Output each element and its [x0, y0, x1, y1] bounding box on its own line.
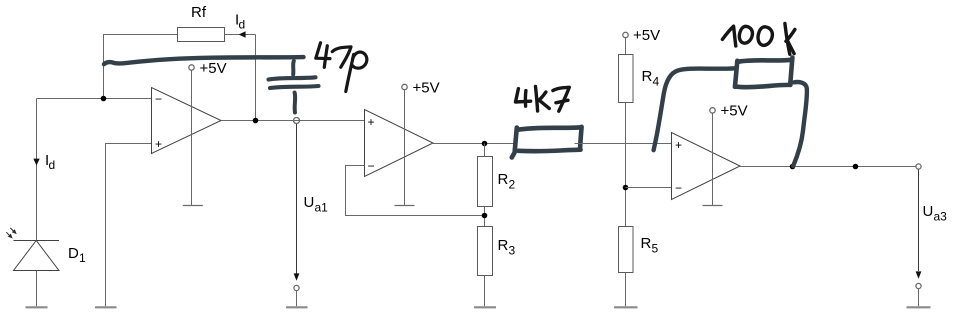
- hand-drawn wire: cap bottom lead: [293, 93, 298, 113]
- terminal +5V (R4): [623, 32, 628, 37]
- svg-text:−: −: [675, 181, 682, 195]
- resistor R5: [619, 227, 634, 273]
- svg-text:2: 2: [509, 178, 516, 192]
- light arrows into D1: [6, 228, 16, 238]
- terminal +5V (U1): [189, 65, 194, 70]
- ground (D1): [26, 306, 48, 308]
- current arrow Id (feedback): [239, 31, 246, 37]
- node: U1 output / feedback junction: [253, 118, 259, 124]
- handwritten value 47p: [316, 43, 367, 92]
- resistor Rf: [178, 28, 225, 42]
- wire: Rf right leg down to U1 output: [255, 35, 257, 121]
- op-amp U3: [672, 133, 741, 200]
- svg-text:+5V: +5V: [200, 60, 227, 77]
- svg-text:4: 4: [653, 75, 660, 89]
- hand-drawn wire: 47p cap top connection (parallel to Rf): [104, 57, 304, 64]
- hand-drawn capacitor 47p bottom plate: [270, 86, 319, 88]
- svg-text:+5V: +5V: [633, 27, 660, 44]
- wire: R2 to R3: [484, 207, 486, 227]
- ground (Ua1): [286, 306, 308, 308]
- wire: photodiode vertical: [36, 99, 38, 241]
- wire: R4 to R5 (crosses signal wire): [625, 103, 627, 227]
- hand-drawn resistor sketch 100k (white fill): [736, 60, 792, 87]
- wire: segment visible inside 4k7 sketch: [575, 143, 584, 145]
- wire: U2 power rail: [404, 90, 406, 206]
- node: output junction 2: [853, 164, 859, 170]
- terminal +5V (U2): [402, 84, 407, 89]
- terminal circle Ua3 top: [916, 164, 921, 169]
- svg-text:+: +: [368, 115, 375, 129]
- wire: R5 to ground: [625, 273, 627, 307]
- svg-text:R: R: [498, 237, 509, 254]
- wire: +5V to R4: [625, 38, 627, 55]
- wire: U3 output: [740, 166, 916, 168]
- hand-drawn wire: cap top lead: [291, 61, 296, 75]
- ground (U3): [703, 205, 723, 207]
- svg-text:R: R: [642, 68, 653, 85]
- svg-text:R: R: [641, 235, 652, 252]
- svg-text:+5V: +5V: [413, 80, 440, 97]
- svg-text:5: 5: [652, 242, 659, 256]
- svg-text:U: U: [923, 203, 934, 220]
- wire: U2 output to U3 plus input: [433, 143, 672, 145]
- hand-drawn wire: 100k left lead down to U3 input: [654, 68, 735, 150]
- terminal circle Ua3 bottom: [916, 283, 921, 288]
- ground (Ua3): [907, 306, 931, 308]
- svg-text:+: +: [155, 137, 162, 151]
- voltage arrow Ua3: [916, 271, 922, 278]
- ground (U1 plus input): [95, 306, 117, 308]
- svg-text:a3: a3: [934, 210, 948, 224]
- ground (R3): [474, 306, 496, 308]
- ground (R5): [614, 306, 638, 308]
- resistor R3: [478, 227, 493, 276]
- voltage arrow Ua1: [294, 273, 300, 280]
- terminal +5V (U3): [710, 108, 715, 113]
- wire: divider to U3 minus input: [626, 187, 672, 189]
- wire: U3 power rail: [712, 113, 714, 205]
- wire: node to R2: [484, 144, 486, 157]
- svg-text:a1: a1: [315, 201, 329, 215]
- ground (U2): [395, 205, 415, 207]
- wire: U1 power rail: [191, 70, 193, 205]
- resistor R2: [478, 157, 493, 207]
- hand-drawn wire: 100k right lead down to output: [793, 82, 807, 166]
- wire: U1 plus input to ground: [106, 144, 152, 307]
- ground (U1): [183, 205, 203, 207]
- op-amp U2: [365, 110, 434, 177]
- handwritten value 4k7: [516, 86, 570, 111]
- svg-text:+: +: [675, 138, 682, 152]
- wire: U1 output to U2 plus input: [221, 120, 365, 122]
- svg-text:1: 1: [79, 251, 86, 265]
- svg-text:−: −: [368, 159, 375, 173]
- svg-text:d: d: [239, 18, 246, 32]
- svg-text:U: U: [304, 194, 315, 211]
- svg-text:R: R: [498, 171, 509, 188]
- terminal circle Ua1 tap: [294, 118, 300, 124]
- svg-text:3: 3: [509, 244, 516, 258]
- svg-text:−: −: [155, 92, 162, 106]
- wire: Rf right lead: [225, 34, 256, 36]
- wire: D1 anode to ground: [36, 271, 38, 307]
- wire: Ua1 tap down: [296, 124, 298, 277]
- node: U1 inverting input junction: [101, 96, 107, 102]
- svg-text:Rf: Rf: [191, 4, 207, 21]
- wire: R3 to ground: [484, 276, 486, 307]
- svg-text:d: d: [49, 158, 56, 172]
- hand-drawn resistor sketch 4k7 (white fill): [515, 127, 582, 152]
- wire: Ua1 terminal to ground: [296, 291, 298, 307]
- wire: Ua3 terminal to ground: [918, 289, 920, 307]
- svg-text:+5V: +5V: [721, 103, 748, 120]
- wire: Ua3 down: [918, 169, 920, 271]
- op-amp U1: [152, 88, 222, 154]
- current arrow Id (photodiode branch): [33, 159, 39, 166]
- hand-drawn capacitor 47p top plate: [269, 77, 316, 79]
- node: output / 100k feedback junction: [790, 164, 796, 170]
- wire: inverting input net (D1 to op-amp U1 minus): [37, 98, 152, 100]
- resistor R4: [619, 55, 634, 103]
- wire: U2 feedback loop: [346, 166, 482, 216]
- wire: Rf left leg: [104, 35, 178, 99]
- terminal circle Ua1 bottom: [294, 285, 299, 290]
- svg-text:D: D: [68, 245, 79, 262]
- node: U2 output junction: [482, 141, 488, 147]
- photodiode D1: [14, 241, 60, 271]
- handwritten value 100k: [722, 24, 795, 55]
- node: R2/R3 divider junction: [482, 213, 488, 219]
- node: R4/R5 junction to U3 minus: [623, 185, 629, 191]
